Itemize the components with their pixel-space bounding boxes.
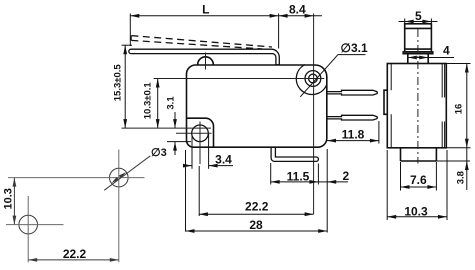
- leader dia 3: [104, 156, 150, 191]
- 3.1 dim: [174, 112, 176, 128]
- pivot washer circle: [305, 71, 321, 87]
- pivot boss outer arc: [296, 65, 327, 95]
- 5 arrows: [405, 20, 414, 24]
- svg-text:22.2: 22.2: [63, 247, 87, 261]
- 11.5 arrows: [271, 180, 280, 184]
- mounting hole A: [110, 168, 129, 187]
- 10.3 bottom-left arrows: [13, 178, 17, 187]
- terminal pin 1: [327, 90, 377, 95]
- terminal pin 3 (bottom, L-shaped): [271, 147, 318, 161]
- 16 / 3.8 dim line: [466, 64, 468, 191]
- svg-text:3.4: 3.4: [215, 153, 232, 167]
- 8.4 arrows: [279, 14, 288, 18]
- 4 dim: [408, 57, 454, 59]
- BOTTOM LEFT VIEW: [14, 156, 150, 260]
- 10.3 dim: [13, 178, 15, 225]
- 3.4 arrows: [183, 164, 192, 168]
- dashed lever free position: [131, 36, 272, 49]
- hole B crosshair: [6, 224, 64, 226]
- svg-text:5: 5: [415, 9, 422, 23]
- 10.3 side arrows: [387, 215, 396, 219]
- 16 arrows: [465, 64, 469, 73]
- side centerline: [417, 29, 419, 164]
- svg-text:7.6: 7.6: [410, 173, 427, 187]
- bottom protrusion: [401, 148, 437, 161]
- arrowheads: [123, 14, 468, 233]
- 7.6 ext: [400, 162, 402, 191]
- lever arm: [129, 49, 279, 65]
- L dim: [129, 14, 131, 47]
- datum line: [122, 127, 212, 129]
- 28 arrows: [186, 229, 195, 233]
- svg-text:3.8: 3.8: [455, 171, 466, 184]
- left bump: [384, 90, 387, 114]
- mounting hole B: [19, 215, 38, 234]
- 15.3 dim: [124, 45, 126, 128]
- svg-text:∅3.1: ∅3.1: [341, 41, 368, 55]
- terminal pin 2: [327, 115, 377, 120]
- 11.8 arrows: [327, 139, 336, 143]
- 16 ext bottom: [446, 147, 470, 149]
- svg-text:2: 2: [342, 169, 349, 183]
- svg-text:8.4: 8.4: [289, 2, 306, 16]
- svg-text:∅3: ∅3: [151, 147, 167, 159]
- 3.4 dim: [191, 134, 193, 169]
- 28 dim: [185, 150, 187, 232]
- svg-text:16: 16: [453, 104, 464, 115]
- pivot horizontal centerline: [154, 78, 325, 80]
- 15.3 arrows: [123, 45, 127, 54]
- svg-text:4: 4: [443, 44, 450, 58]
- 22.2 arrows: [199, 212, 208, 216]
- 22.2 dim: [198, 166, 200, 216]
- leader arrows on hole A: [119, 172, 126, 178]
- 10.3+-0.1 dim: [157, 79, 159, 129]
- svg-text:10.3: 10.3: [404, 204, 428, 218]
- bump centerline: [205, 53, 207, 70]
- extension bottom of protrusion: [436, 160, 470, 162]
- leader dia 3.1: [338, 54, 366, 56]
- svg-text:10.3: 10.3: [3, 188, 15, 209]
- hole horizontal centerline: [176, 132, 212, 134]
- button: [405, 24, 432, 52]
- 10.3 side dim: [386, 150, 388, 220]
- side grooves: [390, 64, 392, 148]
- svg-text:11.5: 11.5: [287, 170, 310, 184]
- svg-text:22.2: 22.2: [245, 200, 269, 214]
- 11.5 dim: [270, 163, 272, 185]
- svg-text:10.3±0.1: 10.3±0.1: [143, 82, 154, 120]
- 11.8 dim: [378, 121, 380, 144]
- switch body outline with pivot boss: [187, 65, 327, 147]
- 22.2 bottom-left arrows: [28, 258, 37, 262]
- 16 ext top: [446, 63, 470, 65]
- 22.2 dim: [28, 259, 119, 261]
- mounting ear bottom-left: [187, 118, 214, 147]
- 2 arrow: [327, 180, 336, 184]
- side body: [387, 64, 446, 148]
- svg-text:15.3±0.5: 15.3±0.5: [113, 64, 124, 102]
- 2 dim: [318, 181, 327, 183]
- L arrows: [130, 14, 139, 18]
- SIDE VIEW: [384, 24, 446, 161]
- 10.3+-0.1 arrows: [156, 79, 160, 88]
- 3.1 arrows: [173, 119, 177, 128]
- 7.6 arrows: [401, 185, 410, 189]
- hole A crosshair: [8, 177, 145, 179]
- pivot hole: [309, 74, 318, 83]
- svg-text:28: 28: [249, 218, 263, 232]
- svg-text:11.8: 11.8: [342, 127, 365, 141]
- hole vertical centerline: [199, 122, 201, 165]
- svg-text:L: L: [202, 3, 209, 17]
- pivot vertical centerline / 8.4 and 22.2 extension: [313, 14, 315, 215]
- mounting hole front view: [192, 125, 209, 142]
- 3.8 arrow: [465, 161, 469, 170]
- 5 dim: [404, 19, 406, 24]
- 4 arrows: [408, 56, 417, 60]
- thin center lines: [122, 14, 325, 215]
- dimension lines: [122, 14, 379, 233]
- svg-text:3.1: 3.1: [165, 96, 176, 110]
- 8.4 dim: [279, 15, 322, 17]
- plunger bump: [198, 57, 214, 65]
